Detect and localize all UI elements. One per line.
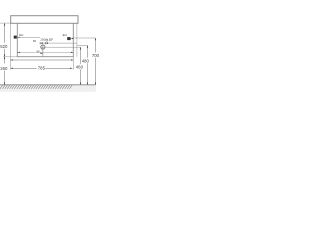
svg-text:EU: EU — [63, 33, 67, 37]
floor hatching — [0, 85, 72, 89]
supply point circle EF — [46, 38, 48, 41]
dimension 480 line — [87, 45, 88, 84]
svg-text:40: 40 — [36, 50, 40, 54]
svg-text:60: 60 — [33, 39, 37, 43]
floor band — [0, 85, 96, 92]
arrowhead at EU symbol — [71, 38, 74, 39]
countertop (washbasin top) — [11, 16, 78, 24]
extension vertical left (countertop edge down) — [10, 23, 12, 69]
dimension 460 line — [80, 47, 81, 85]
svg-text:100: 100 — [40, 37, 45, 41]
svg-text:520: 520 — [0, 44, 8, 49]
pipe level line with ticks and arrows — [40, 42, 77, 45]
waste outlet symbol right (EU) — [67, 37, 70, 40]
svg-text:480: 480 — [82, 58, 90, 63]
cabinet outline — [17, 24, 73, 57]
extension vertical right (cabinet edge down) — [72, 57, 74, 70]
inner dimension line across cabinet — [17, 52, 73, 53]
svg-text:460: 460 — [76, 64, 84, 69]
dimension 700 line — [95, 38, 96, 85]
arrowhead at EC symbol — [17, 37, 20, 38]
label 480 — [82, 58, 90, 63]
svg-text:260: 260 — [0, 66, 8, 71]
svg-text:700: 700 — [92, 53, 100, 58]
label 460 — [76, 64, 84, 69]
svg-text:EF: EF — [49, 38, 53, 42]
floor line — [0, 84, 96, 86]
svg-text:EC: EC — [19, 33, 24, 37]
arrowhead to drain stub — [41, 53, 43, 54]
extension line top left — [0, 22, 11, 24]
dimension 520 line — [4, 23, 5, 57]
water supply symbol left (EC) — [14, 36, 17, 39]
level line to 700 dimension — [73, 37, 95, 39]
cabinet right inner panel line — [76, 24, 78, 57]
label 100 — [40, 37, 46, 41]
level line to 480 dimension — [77, 44, 88, 46]
svg-text:785: 785 — [38, 66, 46, 71]
drain circle with crosshair — [41, 45, 81, 57]
upper width dimension line — [11, 59, 74, 60]
label 40 — [36, 50, 40, 54]
extension line cabinet bottom left — [3, 56, 17, 58]
dimension 785 line — [11, 68, 73, 69]
leader line from EC symbol — [17, 36, 40, 38]
dimension 260 line — [4, 57, 5, 85]
